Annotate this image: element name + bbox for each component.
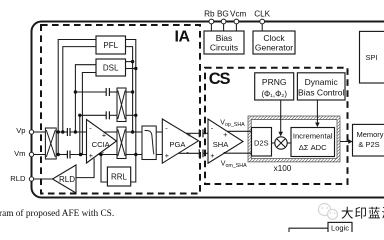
capacitor Cin bottom (67, 151, 70, 159)
wire Dynamic Bias Control to ADC with arrowhead (315, 100, 320, 127)
pin RLD (29, 177, 33, 181)
capacitor SHA bottom (199, 149, 203, 157)
wire SHA out bottom to D2S (224, 152, 251, 154)
wire filter to PGA bottom (156, 154, 162, 156)
output chopper (117, 127, 126, 159)
svg-text:DSL: DSL (103, 64, 119, 73)
wire CLK to Clock Generator (261, 22, 263, 31)
Logic block (next figure, partial) (328, 222, 352, 234)
node top line rail B (61, 130, 64, 133)
SPI block (360, 31, 384, 83)
svg-text:+: + (210, 151, 214, 160)
RLD amp triangle (53, 165, 77, 193)
node rail D capline2 (134, 114, 137, 117)
chip boundary rounded rect (32, 22, 384, 198)
svg-text:RLD: RLD (59, 175, 75, 184)
svg-text:Incremental: Incremental (293, 132, 333, 141)
wire rail feedback cap bottom (79, 115, 81, 154)
node rail C capline1 (131, 90, 134, 93)
wire rail to PFL input 1 (58, 40, 96, 155)
node rail D DSL out2 (134, 67, 137, 70)
wire rail to PFL input 2 (63, 47, 96, 132)
PRNG block (255, 73, 294, 100)
svg-text:PRNG: PRNG (262, 77, 287, 87)
wire RLD pin to RLD amp (32, 178, 53, 180)
node capline2 rail F (78, 114, 81, 117)
svg-text:PGA: PGA (169, 140, 186, 149)
svg-text:ΔΣ ADC: ΔΣ ADC (299, 143, 327, 152)
pin Rb (209, 19, 214, 24)
Dynamic Bias Control block (297, 73, 345, 100)
svg-text:& P2S: & P2S (358, 140, 379, 149)
wire filter to PGA top (156, 131, 162, 133)
IA dashed box (41, 25, 200, 194)
wire chopper to filter box bottom (126, 154, 142, 156)
PFL block (96, 36, 126, 54)
hatched accelerator boundary (248, 116, 340, 162)
Clock Generator block (253, 31, 295, 54)
filter box with slew curve (142, 126, 156, 160)
node bottom line rail A (57, 153, 60, 156)
svg-text:D2S: D2S (254, 138, 269, 147)
Memory & P2S block (353, 124, 384, 156)
svg-text:CS: CS (209, 70, 231, 88)
wire feedback cap line 2 (80, 114, 117, 116)
D2S block (252, 128, 272, 157)
pin CLK (260, 19, 265, 24)
svg-text:Vcm: Vcm (230, 10, 247, 19)
wire D2S to multiplier (272, 142, 275, 144)
RRL block (107, 167, 130, 186)
wire to Logic (289, 228, 328, 232)
svg-text:x100: x100 (274, 164, 292, 173)
wire rail DSL input 2 (82, 73, 96, 155)
wire rail DSL input 1 (75, 65, 96, 132)
svg-text:IA: IA (175, 29, 191, 46)
svg-text:SPI: SPI (365, 53, 377, 62)
Incremental ADC block (291, 128, 335, 157)
wire BG to Bias (223, 22, 225, 31)
wire PFL out2 to rail C (126, 47, 133, 132)
svg-text:+: + (223, 130, 227, 139)
op-amp PGA (162, 119, 198, 163)
wire DSL out1 (126, 61, 133, 63)
wire Vm to input chopper (32, 154, 46, 156)
watermark icon (319, 204, 338, 220)
svg-text:RRL: RRL (111, 173, 128, 182)
capacitor SHA top (199, 129, 203, 137)
wire Vcm to Bias (235, 22, 237, 31)
wire PFL out1 to rail D (126, 40, 136, 155)
svg-text:Vp: Vp (16, 126, 25, 135)
wire DSL out2 (126, 68, 136, 70)
wire RRL left (101, 155, 107, 183)
op-amp CCIA (87, 120, 117, 164)
node rail C DSL out1 (131, 60, 134, 63)
svg-text:Memory: Memory (356, 130, 383, 139)
svg-text:Logic: Logic (331, 224, 349, 233)
wire CCIA output top (104, 131, 117, 133)
wire chopper to rail C capline1 (126, 91, 133, 93)
svg-text:Generator: Generator (255, 43, 293, 53)
pin Vp (29, 130, 33, 134)
node top line rail A crossing (57, 130, 60, 133)
svg-text:Dynamic: Dynamic (305, 77, 339, 87)
wire feedback cap line 1 (75, 91, 117, 93)
wire bottom input line (56, 154, 86, 156)
svg-text:CLK: CLK (254, 10, 270, 19)
wire PGA out top (186, 132, 208, 134)
multiplier (circle with X) (275, 137, 287, 149)
capacitor Cin top (67, 128, 70, 136)
svg-text:Vm: Vm (14, 149, 25, 158)
svg-text:PFL: PFL (103, 41, 118, 50)
wire multiplier to ADC (287, 142, 291, 144)
node top line rail E (74, 130, 77, 133)
svg-text:RLD: RLD (10, 174, 26, 183)
svg-text:ram of proposed AFE with CS.: ram of proposed AFE with CS. (0, 208, 114, 219)
svg-text:(Φ₁,Φ₂): (Φ₁,Φ₂) (261, 90, 287, 99)
node bottom line rails F G (79, 153, 83, 157)
wire Rb to Bias (210, 22, 212, 31)
input chopper (45, 128, 56, 159)
wire RLD sense from CCIA (76, 158, 94, 177)
svg-text:+: + (89, 151, 93, 160)
wire chopper to filter box top (126, 131, 142, 133)
Bias Circuits block (204, 31, 244, 54)
node capline1 rail E (74, 90, 77, 93)
svg-text:Bias Control: Bias Control (298, 88, 344, 98)
capacitor Cfb top (106, 88, 109, 96)
pin Vcm (234, 19, 239, 24)
wire PGA out bottom (178, 152, 208, 154)
DSL block (96, 59, 126, 76)
svg-text:Circuits: Circuits (210, 43, 238, 53)
svg-text:Bias: Bias (216, 33, 233, 43)
arrow ADC to Memory (340, 139, 353, 144)
wire CCIA output bottom (98, 154, 117, 156)
pin BG (221, 19, 226, 24)
node RRL left tap (99, 153, 102, 156)
node rail C output top (131, 130, 134, 133)
svg-text:+: + (187, 130, 191, 139)
svg-text:+: + (165, 151, 169, 160)
svg-text:Clock: Clock (263, 33, 285, 43)
svg-text:大印蓝海: 大印蓝海 (341, 206, 384, 221)
svg-text:BG: BG (217, 10, 229, 19)
wire PRNG to multiplier with arrowhead (278, 100, 283, 136)
wire RRL right (131, 155, 136, 183)
pin Vm (29, 152, 33, 156)
CS dashed box (205, 68, 348, 184)
feedback chopper (117, 88, 126, 122)
capacitor Cfb bottom (106, 111, 109, 119)
svg-text:Rb: Rb (204, 10, 215, 19)
wire chopper to rail D capline2 (126, 114, 136, 116)
wire SHA out top to D2S (227, 130, 251, 132)
op-amp SHA (208, 119, 243, 163)
wire top input line (56, 131, 86, 133)
node rail D output bottom (134, 153, 137, 156)
svg-text:SHA: SHA (213, 140, 230, 149)
wire Vp to input chopper (32, 131, 46, 133)
